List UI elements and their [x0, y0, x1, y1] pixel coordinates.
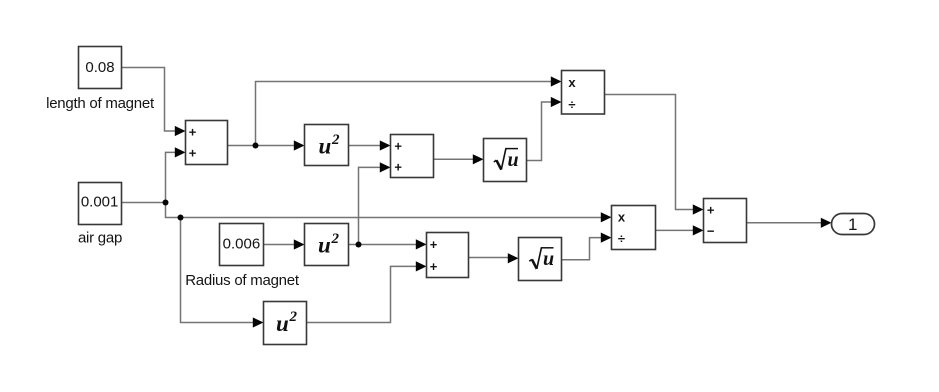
wire 0.08 to sum S1 input 1: [122, 68, 186, 137]
svg-text:÷: ÷: [568, 97, 575, 112]
wire sum S3 output to outport 1: [747, 218, 832, 228]
wire sqrt Q2 output to product P2 input 2: [562, 233, 612, 260]
svg-text:u: u: [543, 248, 554, 270]
wire square U2 output to junction J4 and sum S4 input 1: [349, 239, 427, 249]
svg-text:2: 2: [331, 231, 340, 247]
label "length of magnet": [46, 95, 155, 112]
wire sum S1 output to junction J3 and square U1 input: [228, 140, 305, 150]
svg-text:0.08: 0.08: [85, 59, 114, 76]
svg-text:u: u: [276, 311, 289, 336]
wire product P2 output to sum S3 input 2: [656, 225, 704, 235]
sum block S1: [186, 121, 228, 165]
svg-text:x: x: [618, 210, 626, 225]
junction J2: [178, 215, 184, 221]
wire 0.006 to square U2 input: [264, 239, 305, 249]
square block U1: [305, 125, 349, 166]
sum block S2: [391, 135, 434, 178]
svg-text:÷: ÷: [618, 231, 625, 246]
svg-text:+: +: [430, 237, 438, 252]
svg-text:+: +: [394, 138, 402, 153]
outport 1: [832, 214, 875, 235]
square block U3: [264, 302, 307, 345]
wire sqrt Q1 output to product P1 input 2: [527, 97, 562, 161]
sqrt block Q1: [484, 139, 527, 182]
svg-text:u: u: [318, 233, 331, 258]
wire 0.001 to junction J1: [122, 202, 166, 204]
svg-text:2: 2: [331, 132, 340, 148]
square block U2: [305, 224, 349, 266]
label "Radius of magnet": [185, 272, 300, 289]
svg-text:0.001: 0.001: [81, 194, 119, 211]
wire sum S2 output to sqrt Q1 input: [434, 154, 484, 164]
svg-text:u: u: [508, 149, 519, 171]
junction J3: [253, 143, 259, 149]
product block P2: [612, 206, 656, 250]
sqrt block Q2: [519, 238, 562, 281]
svg-text:+: +: [189, 146, 197, 161]
wire square U3 output to sum S4 input 2: [307, 261, 427, 322]
product block P1: [562, 71, 605, 115]
wire junction J2 to product P2 input 1: [181, 212, 612, 222]
svg-text:1: 1: [848, 215, 857, 234]
svg-text:+: +: [189, 125, 197, 140]
constant block 0.006: [220, 224, 264, 266]
svg-text:0.006: 0.006: [223, 235, 261, 252]
junction J1: [163, 200, 169, 206]
svg-text:+: +: [707, 203, 715, 218]
constant block 0.08: [79, 47, 122, 89]
svg-text:+: +: [430, 259, 438, 274]
svg-text:u: u: [319, 134, 332, 159]
wire junction J1 up to sum S1 input 2: [166, 147, 186, 202]
wire product P1 output to sum S3 input 1: [605, 95, 704, 215]
label "air gap": [78, 230, 122, 247]
svg-text:−: −: [707, 223, 715, 238]
svg-text:length of magnet: length of magnet: [46, 95, 155, 112]
constant block 0.001: [79, 183, 122, 225]
sum block S3: [704, 199, 747, 243]
wire sum S4 output to sqrt Q2 input: [469, 253, 519, 263]
wire junction J3 up to product P1 input 1: [256, 76, 562, 145]
sum block S4: [427, 233, 469, 278]
svg-text:air gap: air gap: [78, 230, 122, 247]
wire junction J4 up to sum S2 input 2: [359, 162, 391, 244]
svg-text:x: x: [568, 75, 576, 90]
svg-text:+: +: [394, 160, 402, 175]
svg-text:Radius of magnet: Radius of magnet: [185, 272, 300, 289]
junction J4: [356, 242, 362, 248]
wire junction J2 down to square U3 input: [181, 218, 264, 328]
wire square U1 output to sum S2 input 1: [349, 140, 391, 150]
wire junction J1 down to junction J2: [166, 203, 181, 218]
svg-text:2: 2: [289, 309, 298, 325]
